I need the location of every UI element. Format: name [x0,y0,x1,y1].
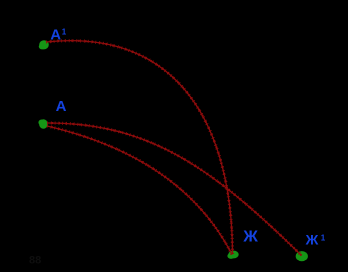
wire curve A to Zh (trajectory) [47,126,232,255]
node Zh (dot) [227,251,238,259]
svg-text:А: А [56,98,67,115]
node Zh1 (dot) [296,251,308,261]
label Zh1 [305,232,326,248]
node A1 (dot) [39,40,49,49]
svg-text:Ж: Ж [242,229,258,246]
svg-text:А: А [50,27,61,44]
wire curve A to Zh1 (trajectory) [47,123,302,256]
svg-text:88: 88 [29,255,41,267]
svg-text:1: 1 [321,233,326,242]
svg-text:1: 1 [62,28,67,37]
label A1 [50,27,67,44]
node A (dot) [38,119,47,129]
wire curve A1 to Zh (trajectory) [46,41,233,254]
svg-text:Ж: Ж [305,232,319,248]
